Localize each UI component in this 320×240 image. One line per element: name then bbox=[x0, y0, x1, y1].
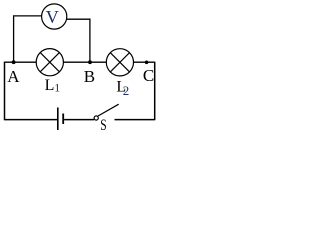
lamp L1 circle bbox=[36, 49, 63, 76]
svg-text:B: B bbox=[84, 67, 95, 86]
svg-text:C: C bbox=[143, 66, 154, 85]
lamp L2 circle bbox=[106, 49, 133, 76]
node B junction dot bbox=[88, 60, 92, 64]
svg-text:1: 1 bbox=[54, 81, 60, 95]
wire: right vertical side bbox=[154, 62, 156, 121]
node A junction dot bbox=[12, 60, 16, 64]
node C junction dot bbox=[145, 61, 149, 65]
svg-text:L: L bbox=[45, 77, 55, 94]
svg-text:A: A bbox=[7, 67, 20, 86]
lamp L1 cross bbox=[40, 53, 59, 72]
wire: main horizontal right segment to corner bbox=[134, 61, 155, 63]
lamp L2 cross bbox=[110, 53, 129, 72]
wire: voltmeter branch left vertical + top lead bbox=[14, 16, 42, 62]
svg-text:2: 2 bbox=[123, 83, 130, 98]
battery positive plate (long) bbox=[57, 108, 59, 131]
switch S lever bbox=[98, 104, 119, 116]
wire: main horizontal A segment bbox=[4, 61, 36, 63]
svg-text:V: V bbox=[46, 7, 59, 27]
battery negative plate (short) bbox=[62, 114, 64, 125]
voltmeter U1 circle bbox=[42, 4, 67, 29]
svg-text:S: S bbox=[100, 117, 106, 134]
switch S pivot circle bbox=[94, 116, 98, 120]
wire: switch to bottom right corner bbox=[115, 119, 155, 121]
wire: left vertical side bbox=[4, 62, 6, 121]
wire: bottom left to battery bbox=[4, 119, 57, 121]
wire: battery to switch bbox=[64, 119, 94, 121]
wire: main horizontal between lamps bbox=[63, 61, 106, 63]
wire: voltmeter right lead + right vertical down to node B bbox=[67, 19, 90, 62]
